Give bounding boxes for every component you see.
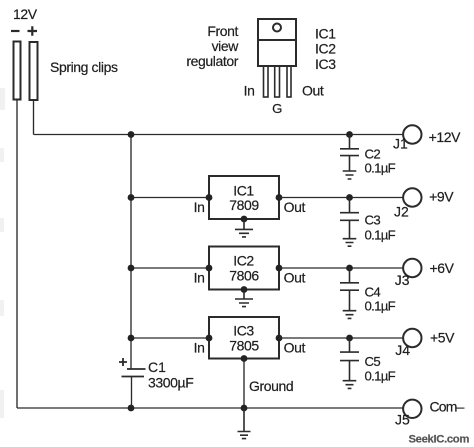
wire negative lead (16, 100, 18, 408)
wire +12V top rail (34, 134, 404, 136)
svg-text:In: In (194, 270, 205, 286)
pin Out IC3 (276, 335, 283, 342)
terminal J1 (403, 125, 421, 143)
svg-text:C5: C5 (365, 354, 381, 369)
wire bus to IC2 input (131, 267, 209, 269)
terminal J5 (403, 400, 421, 418)
svg-text:7809: 7809 (229, 197, 259, 213)
node C2/top rail (346, 131, 353, 138)
ground (below bottom rail) (238, 408, 251, 439)
node bus row4 (128, 335, 135, 342)
svg-text:J2: J2 (394, 203, 409, 219)
ground (below IC1) (235, 219, 253, 237)
wire +12V bus vertical upper (130, 135, 132, 370)
wire IC3 ground to bottom rail (243, 359, 245, 409)
ground (below C3) (343, 239, 357, 247)
regulator package tab (258, 19, 296, 40)
wire IC3 out to J4 (279, 337, 403, 339)
wire positive lead (33, 101, 35, 135)
svg-text:3300µF: 3300µF (148, 375, 193, 391)
svg-text:Out: Out (284, 270, 306, 286)
battery plus terminal mark (28, 26, 38, 35)
svg-text:12V: 12V (13, 6, 38, 22)
node C4 row3 (346, 265, 353, 272)
svg-text:Com–: Com– (430, 399, 465, 415)
svg-text:+6V: +6V (430, 260, 455, 276)
svg-text:+9V: +9V (429, 189, 454, 205)
svg-text:IC2: IC2 (315, 41, 336, 57)
svg-text:+5V: +5V (430, 329, 455, 345)
svg-text:In: In (244, 83, 255, 99)
node ground bottom rail (241, 405, 248, 412)
svg-text:IC1: IC1 (315, 25, 336, 41)
svg-text:J1: J1 (393, 136, 408, 152)
regulator pin 2 G (275, 66, 280, 97)
scan artifacts left edge (0, 88, 5, 418)
capacitor C4 (340, 268, 396, 313)
svg-text:Ground: Ground (249, 378, 293, 394)
svg-text:In: In (194, 340, 205, 356)
wire bus to IC3 input (131, 337, 209, 339)
svg-text:+12V: +12V (429, 129, 462, 145)
op-amp IC3 box 7805 (209, 317, 279, 359)
pin In IC3 (206, 335, 213, 342)
svg-text:0.1µF: 0.1µF (365, 228, 396, 243)
svg-text:Spring clips: Spring clips (50, 59, 118, 75)
spring clip positive (30, 42, 38, 100)
spring clip negative (14, 42, 21, 100)
svg-text:J3: J3 (395, 272, 410, 288)
node bus row2 (128, 194, 135, 201)
ground (below C5) (343, 381, 357, 389)
wire IC1 out to J2 (279, 197, 403, 199)
node bus bottom rail (128, 405, 135, 412)
svg-text:IC2: IC2 (233, 253, 254, 269)
svg-text:SeekIC.com: SeekIC.com (409, 434, 470, 446)
svg-text:7806: 7806 (229, 268, 259, 284)
node bus row3 (128, 265, 135, 272)
ground (below C2) (343, 171, 357, 179)
svg-text:G: G (272, 101, 282, 116)
regulator mounting hole (273, 24, 281, 32)
pin In IC2 (206, 265, 213, 272)
svg-text:Out: Out (284, 340, 306, 356)
svg-text:Front: Front (207, 23, 238, 39)
terminal J4 (403, 329, 421, 347)
pin ground IC3 (241, 355, 248, 362)
regulator pin 1 In (264, 66, 269, 97)
battery minus terminal mark (11, 30, 20, 32)
pin ground IC1 (241, 216, 248, 223)
regulator package body (258, 40, 296, 66)
terminal J2 (403, 188, 421, 206)
op-amp IC1 box 7809 (209, 176, 279, 219)
svg-text:Out: Out (302, 83, 324, 99)
svg-text:0.1µF: 0.1µF (365, 161, 396, 176)
svg-text:Out: Out (284, 199, 306, 215)
capacitor C3 (340, 198, 396, 243)
svg-text:C4: C4 (365, 285, 381, 300)
svg-text:C2: C2 (365, 147, 381, 162)
wire IC2 out to J3 (279, 267, 403, 269)
svg-text:0.1µF: 0.1µF (365, 369, 396, 384)
svg-text:0.1µF: 0.1µF (365, 298, 396, 313)
pin Out IC2 (276, 265, 283, 272)
pin In IC1 (206, 194, 213, 201)
svg-text:IC3: IC3 (233, 323, 254, 339)
svg-text:C3: C3 (365, 213, 381, 228)
svg-text:7805: 7805 (229, 338, 259, 354)
svg-text:J4: J4 (395, 342, 410, 358)
node bus/top rail (128, 131, 135, 138)
svg-text:IC1: IC1 (233, 182, 254, 198)
wire bus to IC1 input (131, 197, 209, 199)
node C5 row4 (346, 335, 353, 342)
svg-text:J5: J5 (395, 412, 410, 428)
regulator pin 3 Out (287, 66, 291, 97)
svg-text:view: view (212, 38, 240, 54)
svg-text:In: In (194, 199, 205, 215)
op-amp IC2 box 7806 (209, 247, 279, 290)
ground (below IC2) (235, 290, 253, 307)
svg-text:regulator: regulator (186, 53, 238, 69)
capacitor C5 (340, 338, 396, 384)
svg-text:C1: C1 (148, 359, 166, 375)
wire bus to bottom rail below C1 (131, 377, 133, 409)
capacitor C2 (340, 135, 396, 176)
wire common bottom rail (17, 407, 403, 409)
svg-text:IC3: IC3 (315, 56, 336, 72)
pin Out IC1 (276, 194, 283, 201)
capacitor C1 polarized (119, 358, 193, 391)
terminal J3 (403, 259, 421, 277)
node C3 row2 (346, 194, 353, 201)
pin ground IC2 (241, 286, 248, 293)
ground (below C4) (343, 311, 357, 319)
